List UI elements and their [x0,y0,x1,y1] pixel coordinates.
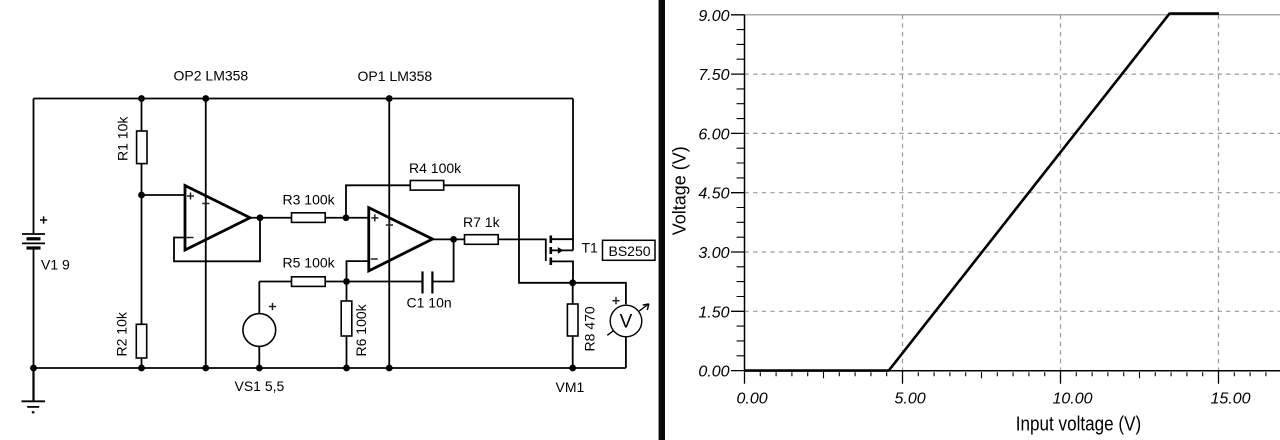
wire T1 source top [572,99,574,251]
gridlines [745,15,1280,371]
svg-text:OP1 LM358: OP1 LM358 [358,68,433,84]
svg-text:0.00: 0.00 [737,391,768,408]
junction OP1 -input / R5 / R6 / C1 node [343,278,350,285]
junction ground rail at R2 [138,365,145,372]
junction OP1 +input node [343,214,350,221]
wire VM1 bottom [625,335,627,368]
wire left rail upper [33,99,35,234]
svg-text:5.00: 5.00 [895,391,926,408]
junction ground rail at OP1 V- [386,365,393,372]
svg-text:R3 100k: R3 100k [283,192,336,208]
svg-text:R1 10k: R1 10k [115,116,131,161]
y axis labels [698,8,729,381]
svg-text:6.00: 6.00 [698,126,729,143]
wire bottom rail [34,367,626,369]
axes [745,15,1280,371]
curve [745,14,1220,371]
wire OP2 +input [142,194,186,196]
source VS1 [243,314,276,347]
wire R1 branch [141,99,143,196]
transistor T1 channel bar [549,236,552,266]
svg-text:Voltage (V): Voltage (V) [670,146,690,235]
resistor R2 [136,324,146,358]
junction ground rail at OP2 V- [202,365,209,372]
VM1 plus mark [612,297,619,304]
svg-text:BS250: BS250 [609,243,651,259]
x axis labels [737,391,1251,408]
VM1 arrowhead [643,304,649,310]
svg-text:VM1: VM1 [556,379,585,395]
label box BS250 [603,240,656,260]
op-amp OP1 marks [371,214,393,259]
junction ground rail at R6 [343,365,350,372]
junction OP2 output node [257,214,264,221]
svg-text:R6 100k: R6 100k [353,303,369,356]
op-amp U OP1 body [369,208,433,271]
wire VS1 top [258,282,260,314]
x ticks [745,371,1219,384]
svg-text:OP2 LM358: OP2 LM358 [174,68,249,84]
pane separator [659,0,665,440]
wire left rail lower [33,249,35,369]
svg-text:V: V [620,312,633,333]
svg-text:R7 1k: R7 1k [463,214,501,230]
svg-text:0.00: 0.00 [698,364,729,381]
wire T1 bulk horizontal [552,249,573,251]
wire T1 source horizontal [552,238,573,240]
resistor R1 [137,131,147,164]
svg-text:T1: T1 [582,240,599,256]
wire R8 branch [572,283,574,368]
wire T1 drain [552,261,573,282]
junction ground rail at V1 [30,365,37,372]
svg-text:15.00: 15.00 [1211,391,1251,408]
svg-text:R4 100k: R4 100k [409,160,462,176]
resistor R4 [410,181,443,191]
wire OP1 -input stub [347,261,369,281]
battery V1 [22,216,47,248]
junction R1 top rail [138,95,145,102]
wire OP2 output to R3 [250,217,369,219]
resistor R7 [465,235,499,245]
svg-text:R8 470: R8 470 [582,306,598,351]
junction T1 drain / R8 / VM1 node [569,279,576,286]
resistor R8 [567,304,578,336]
wire OP2 supply vertical [205,99,207,369]
junction R1/R2 divider node [138,192,145,199]
svg-text:1.50: 1.50 [698,304,729,321]
transistor T1 bulk arrow [558,247,564,254]
junction OP1 output node [450,236,457,243]
wire VM1 top [573,283,626,304]
svg-text:V1 9: V1 9 [41,257,70,273]
svg-text:R2 10k: R2 10k [114,311,130,356]
wire OP1 output to R7 [433,238,499,240]
svg-text:C1 10n: C1 10n [407,295,452,311]
wire R2 branch [141,195,143,368]
svg-text:4.50: 4.50 [698,186,729,203]
resistor R3 [292,213,326,223]
wire top rail [34,98,574,100]
op-amp U OP2 body [185,186,250,251]
wire R6 branch [346,282,348,369]
junction OP2 V+ top rail [202,95,209,102]
y ticks [731,15,745,371]
svg-text:9.00: 9.00 [698,8,729,25]
svg-text:R5 100k: R5 100k [283,255,336,271]
resistor R5 [292,277,326,287]
VS1 plus mark [269,303,276,310]
wire R4 branch [346,185,573,282]
svg-text:Input voltage (V): Input voltage (V) [1016,412,1141,435]
wire R7 to T1 gate [499,239,546,261]
wire C1 right to OP1 output [432,239,453,281]
wire VS1 bottom [258,346,260,368]
op-amp OP2 marks [187,193,210,238]
junction OP1 V+ top rail [386,95,393,102]
meter VM1 [607,304,648,335]
wire R5 / C1 node horizontal [259,281,422,283]
wire OP2 feedback loop [174,218,260,262]
wire OP1 supply vertical [388,99,390,369]
top frame line [745,14,1280,16]
ground [22,368,46,412]
svg-text:3.00: 3.00 [698,245,729,262]
svg-text:VS1 5,5: VS1 5,5 [235,378,285,394]
resistor R6 [341,301,352,336]
svg-text:10.00: 10.00 [1053,391,1093,408]
junction ground rail at R8 [569,365,576,372]
svg-text:7.50: 7.50 [698,67,729,84]
capacitor C1 [423,271,433,293]
junction ground rail at VS1 [256,365,263,372]
